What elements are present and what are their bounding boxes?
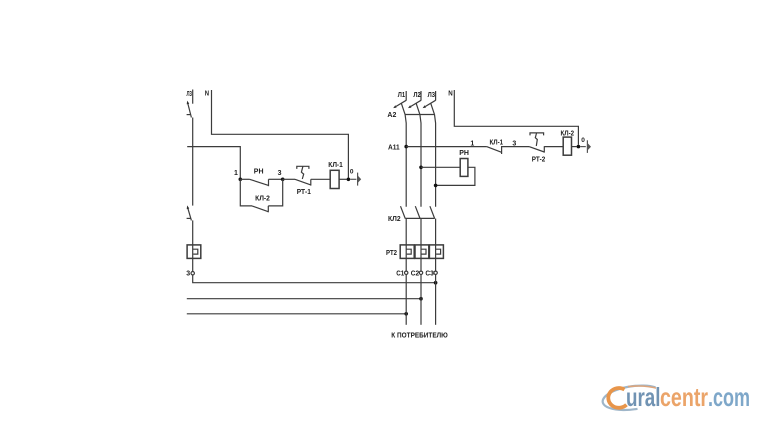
breaker pole 2 arrowhead: [408, 105, 411, 108]
svg-text:0: 0: [581, 137, 585, 144]
switch QF-left upper arrowhead: [187, 101, 190, 105]
svg-text:РТ-2: РТ-2: [532, 157, 546, 164]
breaker pole 3 blade: [431, 103, 436, 207]
node 1 junction dot: [239, 178, 243, 182]
connector pin symbol (right) bar: [586, 140, 588, 153]
junction dot Л3 / RN return: [434, 184, 438, 188]
watermark swoosh orange tail: [628, 386, 658, 388]
switch QF-left upper pole blade: [188, 103, 192, 118]
breaker pole 2 tick: [420, 91, 422, 101]
terminal 3 circle (left): [191, 272, 194, 275]
breaker pole 1 arrowhead: [393, 105, 396, 108]
svg-text:КЛ-2: КЛ-2: [255, 196, 270, 203]
svg-text:0: 0: [350, 168, 354, 175]
breaker pole 3 arrowhead: [423, 105, 426, 108]
contactor KL2 linkage bar: [405, 217, 434, 219]
wire coil RN to Л3: [436, 167, 475, 185]
wire Л3 top tick: [192, 90, 194, 104]
node 3 junction dot: [281, 178, 285, 182]
thermal element RT2 square 1: [400, 245, 414, 259]
svg-text:КЛ-1: КЛ-1: [490, 139, 504, 146]
breaker pole 1 tick: [405, 91, 407, 101]
wire pole 3 below KL2: [435, 219, 437, 272]
svg-text:N: N: [205, 91, 209, 98]
svg-text:КЛ2: КЛ2: [388, 216, 401, 223]
svg-text:С1: С1: [396, 271, 404, 278]
wire N right run: [454, 90, 578, 145]
wire RT-2 to coil KL-2: [544, 146, 563, 148]
svg-text:Л2: Л2: [413, 92, 420, 99]
thermal element RT square (left): [187, 245, 201, 259]
svg-text:N: N: [448, 91, 453, 98]
breaker pole 1 arrow line: [396, 100, 406, 106]
thermal element RT2 hook 1: [406, 249, 411, 254]
contact RT-1 blade: [295, 179, 311, 185]
svg-text:Л3: Л3: [428, 92, 435, 99]
svg-text:А11: А11: [388, 145, 400, 152]
wire KL-2 branch down-left: [240, 179, 252, 206]
breaker pole 1 blade: [401, 103, 406, 207]
wire N left run: [212, 90, 349, 178]
svg-text:ural: ural: [626, 382, 661, 412]
contactor KL2 pole 2 blade: [415, 206, 420, 218]
node 0 junction dot (left): [347, 178, 351, 182]
connector pin symbol (left) lead: [350, 178, 356, 180]
junction dot bus B / C2: [419, 297, 423, 301]
svg-text:1: 1: [470, 140, 474, 147]
coil KL-1 rectangle: [330, 170, 339, 188]
svg-text:centr: centr: [660, 382, 708, 412]
contact RT-1 lead: [283, 178, 295, 180]
coil KL-2 rectangle: [563, 137, 571, 155]
connector pin symbol (left) bar: [357, 173, 359, 186]
thermal element RT2 square 2: [415, 245, 429, 259]
terminal C1 circle: [405, 271, 408, 274]
switch QF-left upper linkage tick: [187, 114, 191, 116]
wire KL-2 branch up-right: [268, 179, 282, 206]
contact KL2-left linkage tick: [187, 217, 191, 219]
thermal element RT hook (left): [193, 249, 198, 254]
contact KL2-left pole blade: [188, 207, 192, 220]
svg-text:КЛ-1: КЛ-1: [328, 162, 343, 169]
wire C3 down: [435, 275, 437, 325]
wire left feeder to bottom bus A: [193, 275, 436, 283]
svg-text:Л1: Л1: [398, 92, 405, 99]
contact RT-2 tick: [543, 146, 545, 152]
contactor KL2 pole 3 blade: [430, 206, 435, 218]
svg-text:1: 1: [234, 170, 238, 177]
svg-text:3: 3: [278, 170, 282, 177]
svg-text:.com: .com: [708, 382, 750, 412]
svg-text:РН: РН: [254, 169, 264, 176]
wire coil KL-1 to node 0: [339, 178, 347, 180]
connector pin symbol (left) arrowhead: [358, 175, 362, 183]
contact KL-2 tick: [267, 206, 269, 212]
thermal element RT2 hook 3: [436, 249, 441, 254]
wire left feeder mid: [192, 118, 194, 206]
svg-text:А2: А2: [387, 112, 396, 119]
svg-text:С2: С2: [411, 271, 419, 278]
contact KL-2 blade: [252, 206, 268, 212]
contact RT-1 thermal bar: [297, 166, 309, 169]
wire C1 down: [405, 275, 407, 325]
contactor KL2 pole 1 blade: [401, 206, 406, 218]
wire C2 down: [420, 275, 422, 325]
junction dot bus C / C1: [404, 312, 408, 316]
wire main control line right: [406, 146, 486, 148]
breaker pole 2 arrow line: [411, 100, 421, 106]
contact KL2-left arrowhead: [187, 205, 190, 209]
svg-text:К ПОТРЕБИТЕЛЮ: К ПОТРЕБИТЕЛЮ: [391, 331, 448, 340]
wire RT-1 to coil KL-1: [311, 178, 330, 180]
wire coil KL-2 to node 0: [572, 146, 577, 148]
connector pin symbol (right) arrowhead: [587, 143, 591, 151]
node 0 junction dot (right): [577, 145, 581, 149]
thermal element RT2 square 3: [429, 245, 443, 259]
wire RN to node 3: [269, 178, 283, 180]
breaker pole 3 arrow line: [425, 100, 435, 106]
svg-text:РТ2: РТ2: [386, 250, 397, 257]
contact KL-1 (right) tick: [501, 146, 503, 154]
terminal C3 circle: [434, 271, 437, 274]
svg-text:РН: РН: [459, 150, 469, 157]
wire bottom bus C: [187, 313, 406, 315]
junction dot Л2 / RN tap: [419, 166, 423, 170]
svg-text:С3: С3: [425, 271, 433, 278]
wire pole 2 below KL2: [420, 219, 422, 272]
breaker linkage bar: [405, 114, 434, 116]
node A11 junction dot: [404, 145, 408, 149]
svg-text:3: 3: [186, 270, 190, 277]
contact RN (left) lead: [240, 178, 249, 180]
contact RN (left) blade: [250, 179, 269, 185]
contact RT-2 blade: [529, 147, 544, 152]
breaker pole 2 blade: [416, 103, 421, 207]
contact RT-2 thermal zigzag: [535, 133, 537, 146]
connector pin symbol (right) lead: [580, 146, 586, 148]
watermark swoosh orange crescent: [608, 388, 626, 408]
wire pole 1 below KL2: [405, 219, 407, 272]
svg-text:Л3: Л3: [187, 91, 192, 98]
contact RN (left) tick: [268, 179, 270, 186]
contact RT-1 thermal zigzag: [301, 166, 303, 179]
wire bottom bus B: [187, 298, 421, 300]
contact KL-1 (right) blade: [487, 147, 502, 153]
terminal C2 circle: [419, 271, 422, 274]
contact RT-1 tick: [310, 179, 312, 185]
contact RT-2 thermal bar: [530, 133, 544, 136]
breaker pole 3 tick: [435, 91, 437, 101]
wire control feed left: [187, 147, 240, 180]
wire Л2 to coil RN: [421, 166, 460, 168]
svg-text:3: 3: [512, 140, 516, 147]
junction dot bus A / C3: [434, 281, 438, 285]
wire KL-1 to RT-2: [502, 146, 529, 148]
wire left feeder lower: [192, 220, 194, 271]
coil RN rectangle: [460, 159, 468, 177]
thermal element RT2 hook 2: [421, 249, 426, 254]
watermark swoosh ring: [603, 386, 656, 410]
svg-text:РТ-1: РТ-1: [297, 189, 311, 196]
